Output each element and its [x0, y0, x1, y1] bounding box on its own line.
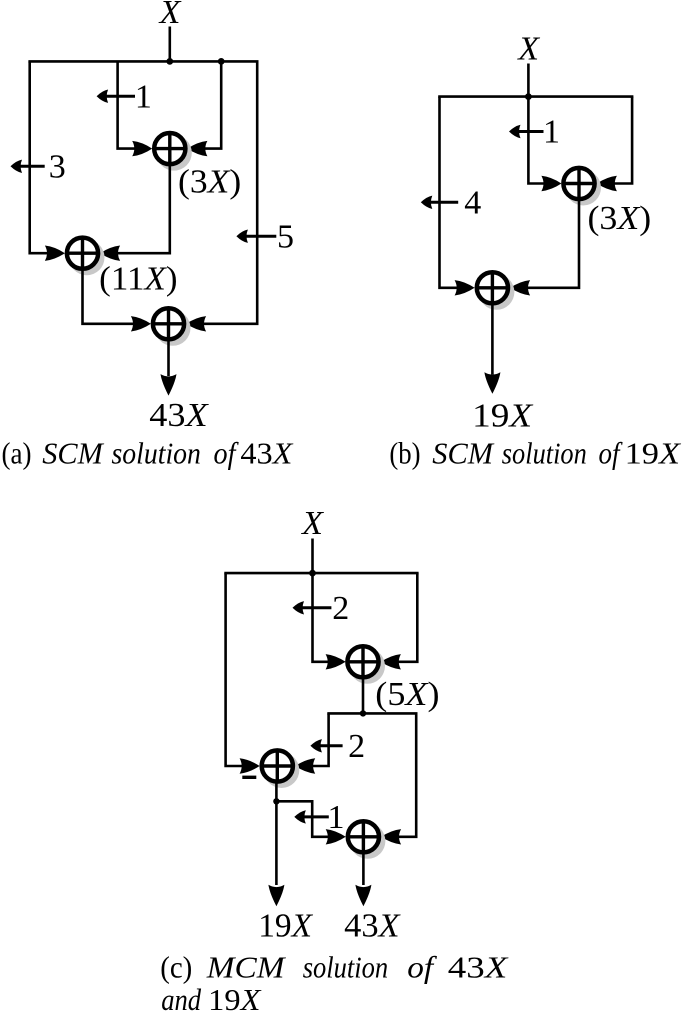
shift-by-5 arrow with label 5 (a): [236, 218, 294, 255]
wire right tee branch down to adder C3 right input (c): [385, 713, 417, 836]
svg-text:43X: 43X: [240, 435, 293, 470]
svg-text:(b): (b): [389, 435, 420, 470]
svg-text:1: 1: [543, 114, 560, 151]
svg-text:X: X: [516, 31, 540, 68]
arrowhead into adder B2 right input (b): [510, 280, 530, 295]
svg-text:(11X): (11X): [99, 261, 177, 298]
wire adder C1 output down to tee junction (c): [362, 678, 365, 714]
svg-text:solution: solution: [112, 435, 201, 470]
arrowhead into adder A1 right input (a): [187, 141, 207, 156]
svg-text:4: 4: [464, 185, 481, 222]
svg-text:43X: 43X: [149, 397, 209, 434]
wire top distribution bus (a): [30, 61, 258, 62]
svg-text:and: and: [161, 982, 201, 1017]
wire X input stem (b): [527, 64, 530, 97]
arrowhead into adder C3 right input (c): [381, 829, 401, 844]
svg-text:19X: 19X: [208, 982, 261, 1017]
arrowhead into adder C2 right input (c): [295, 758, 315, 773]
svg-text:MCM: MCM: [206, 949, 287, 984]
arrowhead of 19X output (b): [484, 372, 500, 394]
svg-text:1: 1: [328, 799, 345, 836]
junction dot on bus (b): [525, 93, 532, 100]
wire top distribution bus (c): [226, 573, 418, 574]
adder B2 producing 19X (b): [475, 271, 514, 310]
arrowhead into adder C2 left input (c): [240, 758, 260, 773]
svg-text:X: X: [300, 505, 324, 542]
svg-text:5: 5: [277, 218, 294, 255]
wire adder A2 output down to adder A3 left input (a): [83, 269, 148, 324]
arrowhead of 43X output (c): [355, 885, 371, 907]
wire X input stem (a): [169, 27, 172, 62]
wire left branch down to adder C2 left input (c): [226, 573, 255, 766]
svg-text:X: X: [158, 0, 182, 31]
adder B1 producing 3X (b): [562, 166, 601, 205]
adder C1 producing 5X (c): [346, 645, 385, 684]
svg-text:(a): (a): [2, 435, 32, 470]
shift-by-2 arrow with label 2 lower (c): [310, 728, 365, 765]
svg-text:(3X): (3X): [588, 200, 652, 237]
adder A2 producing 11X (a): [65, 236, 104, 275]
arrowhead into adder C1 right input (c): [381, 654, 401, 669]
wire adder C2 output down (c): [275, 782, 278, 802]
wire X input stem (c): [311, 539, 314, 574]
wire adder A3 output (a): [167, 340, 170, 377]
svg-text:of: of: [599, 435, 624, 470]
svg-text:43X: 43X: [344, 908, 401, 945]
svg-text:43X: 43X: [448, 949, 509, 984]
arrowhead of 43X output (a): [161, 374, 177, 396]
svg-text:of: of: [407, 949, 438, 984]
shift-by-2 arrow with label 2 (c): [293, 590, 350, 627]
svg-text:SCM: SCM: [432, 435, 495, 470]
svg-text:of: of: [214, 435, 240, 470]
svg-text:1: 1: [135, 78, 152, 115]
wire left branch down to adder B2 left input (b): [440, 97, 472, 288]
wire adder B2 output (b): [491, 304, 494, 375]
svg-text:19X: 19X: [258, 908, 313, 945]
shift-by-3 arrow with label 3 (a): [11, 149, 66, 186]
svg-text:2: 2: [332, 590, 349, 627]
junction dot below adder C1 (c): [360, 710, 366, 716]
wire right branch down to adder A3 right input (a): [190, 61, 258, 323]
svg-text:solution: solution: [502, 435, 587, 470]
adder A1 producing 3X (a): [153, 131, 192, 170]
arrowhead into adder C3 left input (c): [326, 829, 346, 844]
svg-text:19X: 19X: [625, 435, 682, 470]
wire branch to adder A1 right input (a): [191, 61, 221, 148]
adder C2 producing 19X (subtractor) (c): [260, 749, 299, 788]
adder C3 producing 43X (c): [346, 820, 385, 859]
wire adder A1 output down to adder A2 right input (a): [104, 164, 170, 253]
wire adder B1 output down to adder B2 right input (b): [514, 200, 579, 288]
wire middle branch to adder A1 left input (a): [118, 61, 149, 148]
svg-text:(5X): (5X): [375, 676, 439, 713]
svg-text:19X: 19X: [472, 397, 533, 434]
arrowhead into adder A2 left input (a): [45, 246, 65, 261]
shift-by-1 arrow with label 1 (b): [509, 114, 560, 151]
svg-text:solution: solution: [303, 949, 389, 984]
arrowhead into adder A3 right input (a): [186, 316, 206, 331]
wire left branch to adder A2 (a): [30, 61, 61, 253]
arrowhead into adder B1 left input (b): [541, 176, 561, 191]
arrowhead into adder B2 left input (b): [455, 280, 475, 295]
minus sign at adder C2 (c): [242, 776, 256, 779]
junction dot on bus (c): [309, 570, 316, 577]
shift-by-1 arrow with label 1 (c): [294, 799, 344, 836]
wire stem down to adder B1 left input (b): [528, 97, 558, 184]
wire left tee branch to adder C2 right input (c): [307, 713, 328, 766]
arrowhead into adder A2 right input (a): [100, 246, 120, 261]
svg-text:(3X): (3X): [178, 163, 241, 200]
wire adder C3 output (c): [362, 853, 365, 886]
svg-text:3: 3: [49, 149, 66, 186]
arrowhead into adder B1 right input (b): [597, 176, 617, 191]
shift-by-1 arrow with label 1 (a): [97, 78, 152, 115]
shift-by-4 arrow with label 4 (b): [421, 185, 482, 222]
junction dot on bus at X stem (a): [166, 58, 173, 65]
svg-text:(c): (c): [160, 949, 192, 984]
wire right branch to adder B1 right input (b): [601, 97, 633, 184]
wire tee bar below adder C1 (c): [329, 713, 417, 714]
wire adder C2 output continuing down (c): [275, 801, 278, 885]
junction dot on bus right branch (a): [218, 58, 225, 65]
adder A3 producing 43X (a): [151, 307, 190, 346]
wire stem down to adder C1 left input (c): [313, 573, 343, 662]
arrowhead of 19X output (c): [268, 885, 284, 907]
arrowhead into adder A1 left input (a): [132, 141, 152, 156]
svg-text:SCM: SCM: [42, 435, 105, 470]
wire top distribution bus (b): [440, 97, 633, 98]
wire branch from C2 output to adder C3 left input (c): [276, 801, 342, 837]
arrowhead into adder A3 left input (a): [131, 316, 151, 331]
junction dot on adder C2 output (c): [273, 798, 279, 804]
svg-text:2: 2: [348, 728, 365, 765]
wire right branch to adder C1 right input (c): [385, 573, 418, 662]
arrowhead into adder C1 left input (c): [326, 654, 346, 669]
